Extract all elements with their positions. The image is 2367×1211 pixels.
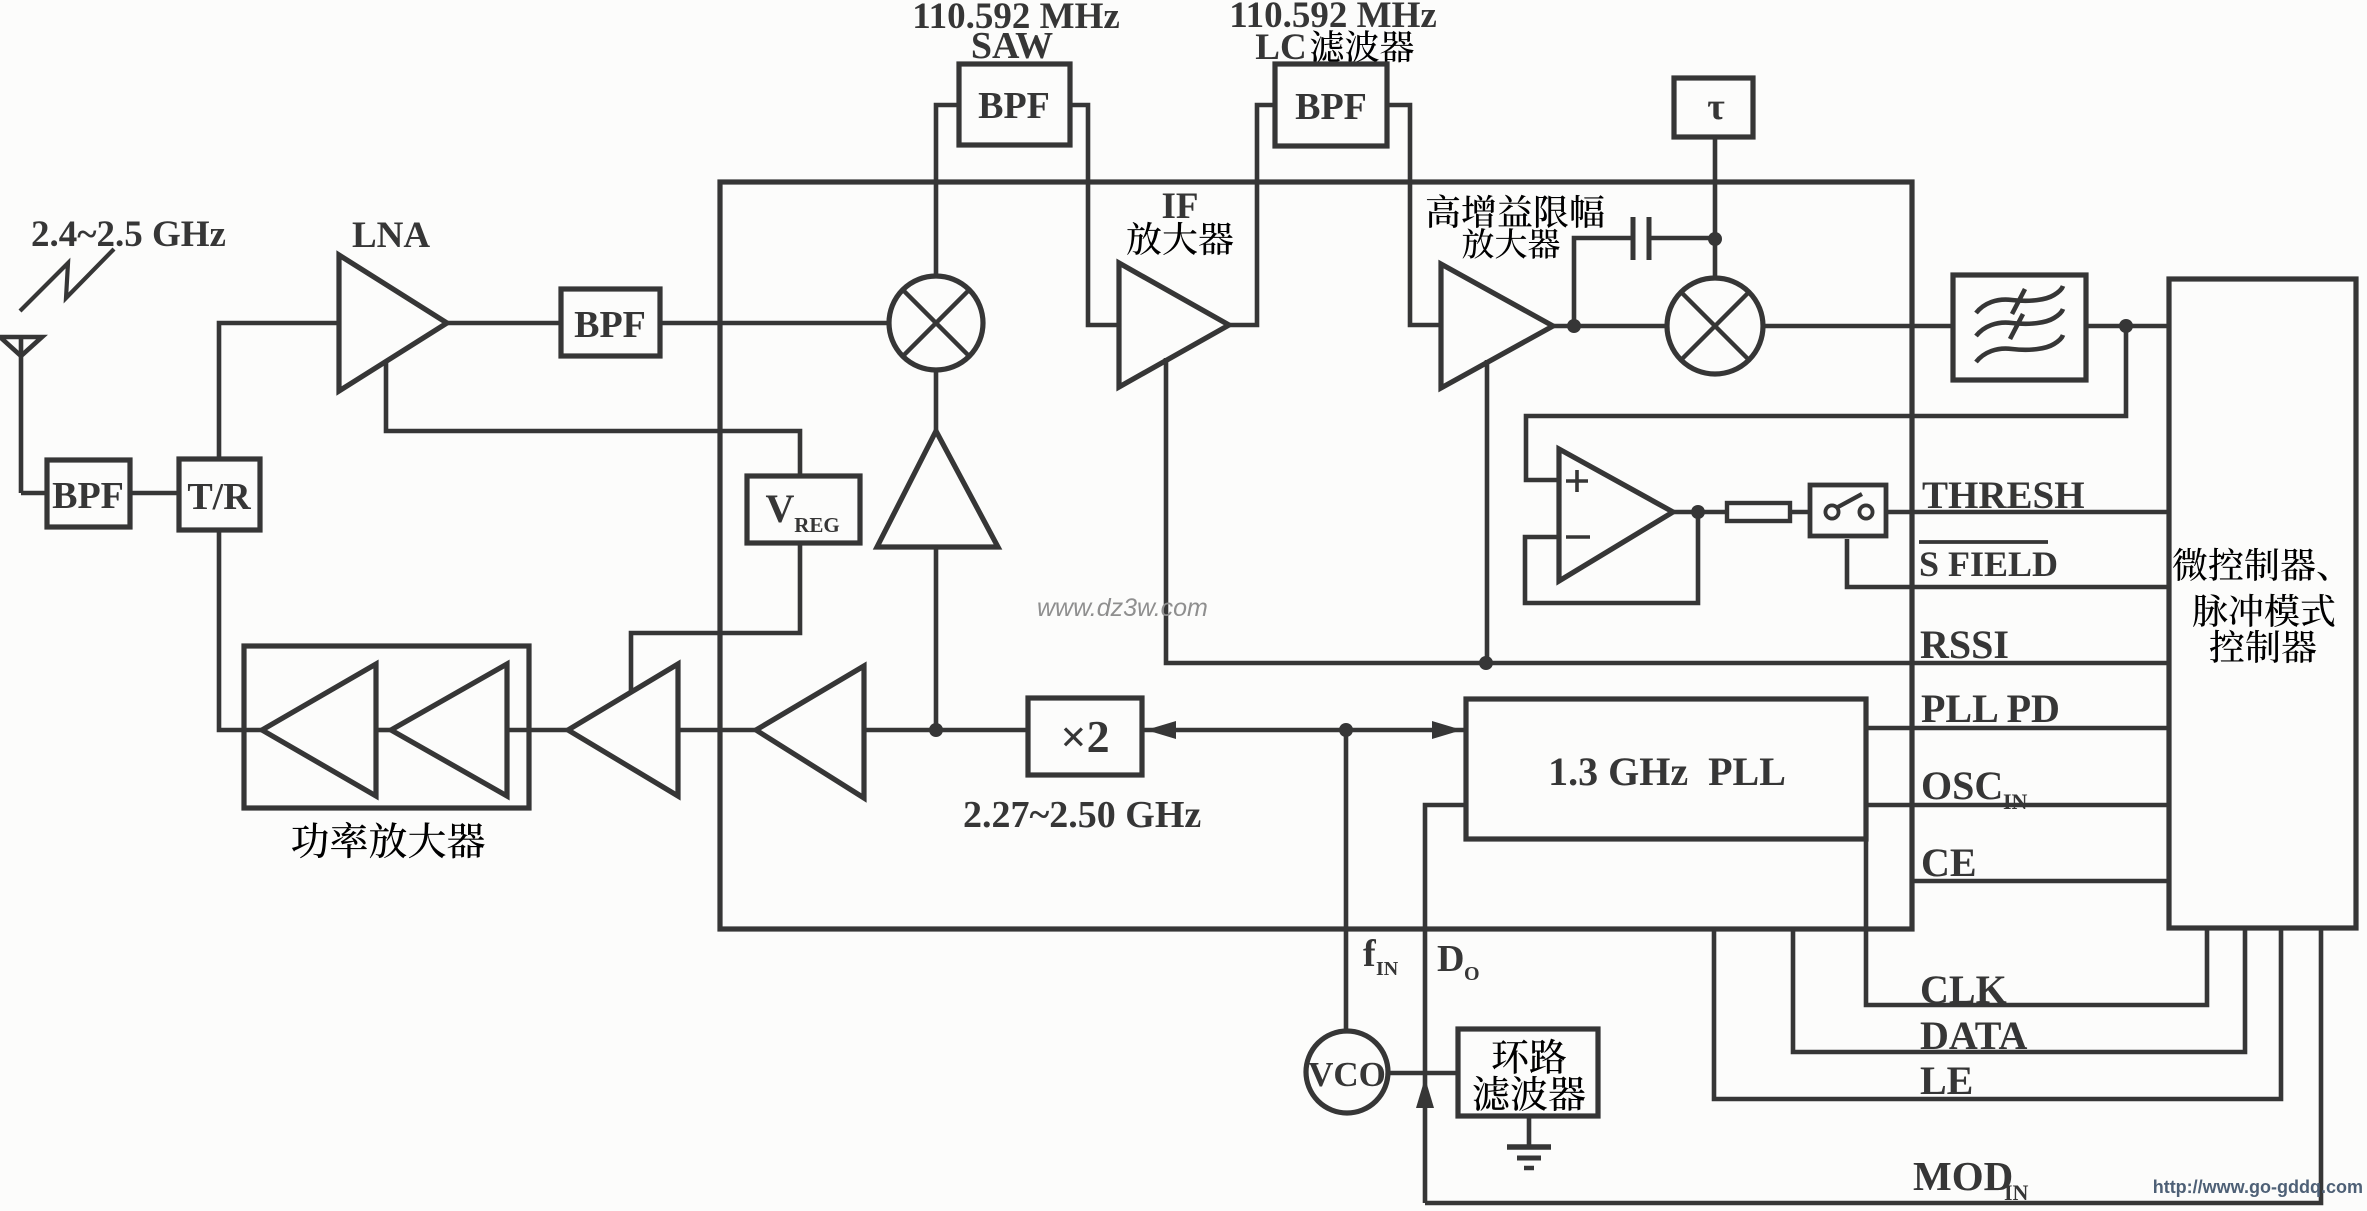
label THRESH bbox=[1922, 474, 2085, 517]
node: 2.4~2.5 GHz RF input label bbox=[31, 214, 226, 255]
wire: mixer M1 to SAW BPF bbox=[936, 105, 959, 276]
svg-text:2.27~2.50 GHz: 2.27~2.50 GHz bbox=[963, 794, 1201, 836]
watermark dz3w bbox=[1037, 594, 1208, 622]
band-pass filter BPF2 bbox=[561, 289, 660, 356]
wire: VREG output to PA bias bbox=[631, 543, 800, 691]
svg-text:OSC: OSC bbox=[1921, 763, 2003, 808]
svg-text:DATA: DATA bbox=[1920, 1013, 2028, 1058]
svg-text:BPF: BPF bbox=[574, 304, 646, 346]
watermark go-gddq bbox=[2153, 1177, 2363, 1197]
label CLK bbox=[1920, 967, 2007, 1012]
svg-text:T/R: T/R bbox=[187, 476, 251, 518]
band-pass filter BPF3 (SAW) bbox=[959, 64, 1070, 145]
wire: zigzag RF arrow bbox=[20, 249, 114, 311]
svg-text:VCO: VCO bbox=[1308, 1055, 1386, 1094]
node: fIN tap junction bbox=[1339, 723, 1353, 737]
svg-text:IF: IF bbox=[1162, 186, 1199, 227]
node: limiter output junction bbox=[1567, 319, 1581, 333]
low-noise amplifier LNA label bbox=[352, 215, 430, 256]
wire: limiter down to RSSI rail bbox=[1485, 360, 1490, 663]
label CE bbox=[1921, 840, 1977, 885]
microcontroller block U5 bbox=[2169, 279, 2356, 928]
label LE bbox=[1920, 1058, 1973, 1103]
net CE wire bbox=[1912, 879, 2169, 884]
wire: A4 to A3 bbox=[678, 728, 756, 733]
wire: T/R down to PA output bbox=[219, 530, 262, 730]
svg-text:IN: IN bbox=[2003, 789, 2028, 814]
wire: capacitor to tau junction bbox=[1651, 236, 1715, 241]
label: 2.27~2.50 GHz bbox=[963, 794, 1201, 836]
wire: IF amp down to RSSI rail bbox=[1166, 358, 2169, 663]
wire: A3 to PA block bbox=[507, 728, 568, 733]
svg-text:PLL PD: PLL PD bbox=[1921, 686, 2060, 731]
wire: buffer to mixer M1 LO port bbox=[934, 371, 939, 431]
svg-text:RSSI: RSSI bbox=[1920, 622, 2009, 667]
voltage regulator VREG bbox=[747, 476, 860, 543]
svg-text:IN: IN bbox=[2004, 1180, 2029, 1205]
wire: SAW BPF to IF amp bbox=[1070, 105, 1119, 325]
svg-text:CE: CE bbox=[1921, 840, 1977, 885]
wire: filter to controller bbox=[2086, 324, 2169, 329]
label RSSI bbox=[1920, 622, 2009, 667]
amplifier A3 (driver) bbox=[568, 664, 678, 796]
svg-text:D: D bbox=[1437, 938, 1464, 980]
wire: tau to mixer M2 bbox=[1713, 136, 1718, 277]
op-amp LNA bbox=[339, 255, 447, 391]
label: LC 滤波器 bbox=[1255, 27, 1413, 68]
net THRESH wire bbox=[1885, 510, 2169, 515]
amplifier A4 (driver) bbox=[756, 666, 864, 798]
wire: BPF2 to mixer M1 input bbox=[660, 321, 889, 326]
label: 110.592 MHz (LC) bbox=[1229, 0, 1437, 36]
label Do bbox=[1437, 938, 1480, 985]
svg-text:BPF: BPF bbox=[52, 475, 124, 517]
band-pass filter BPF1 (antenna) bbox=[47, 460, 130, 527]
amplifier A1 (PA stage) bbox=[262, 664, 376, 796]
label fIN bbox=[1363, 933, 1399, 980]
wire: DATA rail bbox=[1793, 930, 2245, 1052]
wire: comparator out to R1 bbox=[1673, 510, 1727, 515]
wire: BPF1 to T/R bbox=[130, 491, 179, 496]
svg-text:BPF: BPF bbox=[978, 85, 1050, 127]
svg-text:BPF: BPF bbox=[1295, 86, 1367, 128]
label MODIN bbox=[1913, 1153, 2029, 1205]
svg-text:LE: LE bbox=[1920, 1058, 1973, 1103]
net OSCIN wire bbox=[1866, 803, 2169, 808]
svg-text:τ: τ bbox=[1707, 86, 1725, 128]
svg-text:CLK: CLK bbox=[1920, 967, 2007, 1012]
mixer M1 bbox=[889, 276, 983, 370]
delay element TAU bbox=[1674, 78, 1753, 137]
svg-text:www.dz3w.com: www.dz3w.com bbox=[1037, 594, 1208, 622]
switch SW1 bbox=[1810, 485, 1886, 536]
svg-text:THRESH: THRESH bbox=[1922, 474, 2085, 517]
svg-text:×2: ×2 bbox=[1060, 711, 1109, 762]
label: 110.592 MHz (SAW) bbox=[912, 0, 1120, 37]
arrow: MODIN into VCO line bbox=[1416, 1078, 1434, 1108]
wire: limiter out to mixer M2 bbox=[1553, 324, 1666, 329]
svg-text:S FIELD: S FIELD bbox=[1919, 544, 2058, 584]
label: SAW bbox=[971, 25, 1053, 67]
wire: CLK stub from PLL bbox=[1866, 839, 2207, 1005]
wire: MODIN rail bbox=[1425, 930, 2321, 1203]
label: 微控制器、脉冲模式控制器 bbox=[2173, 548, 2335, 663]
svg-text:V: V bbox=[766, 486, 795, 531]
svg-text:LNA: LNA bbox=[352, 215, 430, 256]
wire: LE rail bbox=[1714, 930, 2281, 1099]
op-amp comparator U3 bbox=[1559, 449, 1673, 581]
wire: IF amp out to LC BPF bbox=[1229, 105, 1275, 325]
svg-text:2.4~2.5 GHz: 2.4~2.5 GHz bbox=[31, 214, 226, 255]
label OSCIN bbox=[1921, 763, 2028, 814]
ground GND1 bbox=[1507, 1116, 1551, 1168]
wire: VCO to loop filter bbox=[1388, 1071, 1458, 1076]
node: tau junction bbox=[1708, 232, 1722, 246]
label DATA bbox=[1920, 1013, 2028, 1058]
svg-text:IN: IN bbox=[1376, 958, 1399, 980]
T/R switch U1 bbox=[179, 459, 260, 530]
amplifier A2 (PA stage) bbox=[391, 664, 507, 796]
wire: T/R up to LNA input bbox=[219, 323, 339, 459]
wire: comparator - feedback bbox=[1525, 518, 1698, 603]
op-amp IF amplifier bbox=[1119, 263, 1229, 387]
label: IF 放大器 bbox=[1127, 186, 1233, 255]
svg-text:SAW: SAW bbox=[971, 25, 1053, 67]
svg-text:REG: REG bbox=[794, 513, 840, 537]
IC block U2 outline bbox=[720, 182, 1912, 929]
wire: demod to comparator + bbox=[1526, 326, 2126, 480]
capacitor C1 bbox=[1633, 217, 1649, 260]
VCO oscillator bbox=[1306, 1031, 1388, 1113]
svg-text:f: f bbox=[1363, 933, 1377, 975]
op-amp limiting amplifier bbox=[1441, 264, 1553, 388]
wire: A2 to A1 bbox=[376, 728, 391, 733]
antenna ANT1 bbox=[0, 337, 42, 493]
node: demod output junction bbox=[2119, 319, 2133, 333]
wire: mixer M2 out to filter bbox=[1763, 324, 1953, 329]
node: RSSI junction bbox=[1479, 656, 1493, 670]
label: 高增益限幅放大器 bbox=[1427, 194, 1604, 258]
wire: LO junction up to buffer bbox=[934, 547, 939, 730]
wire: fIN down to VCO bbox=[1344, 730, 1349, 1032]
net PLL PD wire bbox=[1866, 726, 2169, 731]
low-pass filter FL1 bbox=[1953, 275, 2086, 380]
frequency doubler X2 bbox=[1028, 698, 1142, 775]
label S FIELD (active low) bbox=[1919, 542, 2058, 584]
wire: Do from PLL down bbox=[1425, 805, 1466, 1203]
svg-text:MOD: MOD bbox=[1913, 1153, 2013, 1199]
mixer M2 bbox=[1667, 278, 1763, 374]
band-pass filter BPF4 (LC) bbox=[1275, 64, 1387, 146]
wire: limiter out up to capacitor bbox=[1574, 238, 1631, 326]
node: LO junction bbox=[929, 723, 943, 737]
wire: LC BPF to limiter amp bbox=[1387, 105, 1441, 325]
wire: LNA output to BPF2 bbox=[447, 321, 561, 326]
svg-text:http://www.go-gddq.com: http://www.go-gddq.com bbox=[2153, 1177, 2363, 1197]
loop filter block bbox=[1458, 1029, 1598, 1116]
resistor R1 bbox=[1727, 503, 1790, 521]
svg-text:1.3 GHz PLL: 1.3 GHz PLL bbox=[1548, 749, 1786, 794]
wire: R1 to switch bbox=[1790, 510, 1809, 515]
wire: switch to S FIELD rail bbox=[1847, 539, 2169, 587]
node: comparator output junction bbox=[1691, 505, 1705, 519]
PLL block U4 bbox=[1466, 699, 1866, 839]
wire: LNA bias branch down bbox=[386, 360, 800, 476]
wire: antenna to BPF bbox=[21, 491, 47, 496]
label: 功率放大器 (power amplifier) bbox=[292, 822, 485, 859]
svg-text:O: O bbox=[1464, 963, 1480, 985]
amplifier A5 (LO buffer) bbox=[877, 431, 998, 547]
label PLL PD bbox=[1921, 686, 2060, 731]
power amplifier PA block bbox=[244, 646, 529, 808]
label 1.3 GHz PLL bbox=[1548, 749, 1786, 794]
wire: x2 output to A4 bbox=[864, 728, 1028, 733]
wire: doubler to PLL (bidirectional) bbox=[1142, 721, 1466, 739]
